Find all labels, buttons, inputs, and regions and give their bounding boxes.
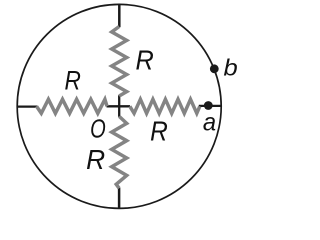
resistor R right xyxy=(130,99,200,113)
circle conductor ring xyxy=(17,4,221,208)
node b dot xyxy=(210,64,219,73)
resistor R top xyxy=(112,27,127,97)
svg-text:R: R xyxy=(136,44,154,75)
svg-text:O: O xyxy=(90,114,106,144)
node O cross junction vertical wire xyxy=(118,95,120,117)
svg-text:a: a xyxy=(203,109,216,137)
wire bottom stub xyxy=(118,188,121,209)
svg-text:b: b xyxy=(224,55,238,81)
svg-text:R: R xyxy=(150,115,168,146)
wire top stub xyxy=(118,4,121,27)
node a dot xyxy=(204,101,213,110)
wire right stub (through node a to circle) xyxy=(199,105,222,107)
svg-text:R: R xyxy=(65,65,81,95)
node O cross junction horizontal wire xyxy=(107,105,131,107)
wire left stub xyxy=(17,105,38,107)
svg-text:R: R xyxy=(86,144,105,175)
resistor R bottom xyxy=(112,116,127,188)
resistor R left xyxy=(37,99,108,113)
